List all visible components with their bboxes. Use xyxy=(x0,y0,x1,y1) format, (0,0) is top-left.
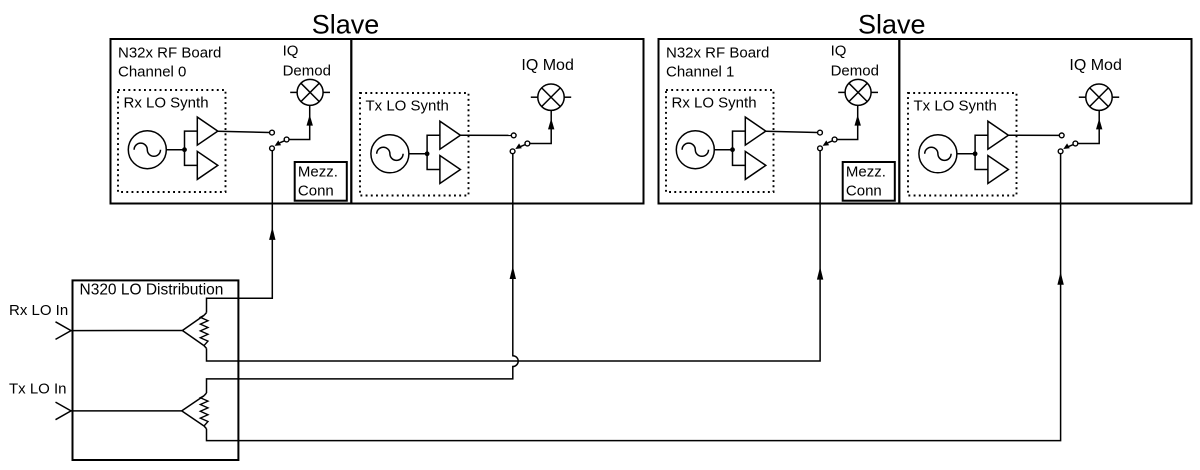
svg-text:N32x RF Board: N32x RF Board xyxy=(118,44,221,61)
svg-text:Rx LO Synth: Rx LO Synth xyxy=(672,95,757,112)
mixer: IQ Demod (channel 1) xyxy=(845,79,871,105)
svg-text:Rx LO Synth: Rx LO Synth xyxy=(124,95,209,112)
amplifier (bottom, Rx channel 1) xyxy=(745,151,766,179)
switch throw from LO distribution xyxy=(818,146,823,151)
wire: Rx splitter top output to channel 0 Rx switch xyxy=(207,151,273,313)
wire: junction to amplifier inputs xyxy=(427,135,440,169)
switch arm with arrowhead xyxy=(828,141,833,143)
oscillator (Rx LO, channel 0) xyxy=(128,131,166,169)
switch SPDT (Tx): throw from amp xyxy=(1059,133,1064,138)
wire: oscillator to junction xyxy=(166,149,184,151)
switch SPDT (Rx channel 0): throw from amp xyxy=(270,130,275,135)
oscillator (Tx LO) xyxy=(919,135,957,173)
arrowhead into mixer xyxy=(307,115,313,126)
amplifier (bottom, Rx channel 0) xyxy=(197,151,218,179)
svg-text:Conn: Conn xyxy=(846,182,882,199)
switch throw from LO distribution xyxy=(510,149,515,154)
arrowhead up (ch0 Tx feed) xyxy=(510,266,516,279)
svg-text:N320 LO Distribution: N320 LO Distribution xyxy=(80,282,224,299)
wire: junction to amplifier inputs xyxy=(975,135,988,169)
junction dot xyxy=(730,147,735,152)
svg-text:Tx LO Synth: Tx LO Synth xyxy=(914,98,997,115)
splitter Tx: triangle xyxy=(182,396,204,411)
svg-text:Slave: Slave xyxy=(312,10,380,40)
arrowhead into mixer xyxy=(548,118,554,129)
arrowhead up (ch1 Rx feed) xyxy=(817,267,823,280)
amplifier (top, Tx) xyxy=(440,121,461,149)
splitter Rx: resistor zigzag xyxy=(200,315,208,345)
N32x RF Board Channel 1 box xyxy=(659,39,900,204)
switch pole xyxy=(284,137,289,142)
wire: switch pole to IQ Demod mixer xyxy=(289,106,310,140)
wire: switch pole to IQ Mod mixer xyxy=(1078,110,1099,143)
N32x RF Board Channel 0 box xyxy=(111,39,352,204)
amplifier (bottom, Tx) xyxy=(988,156,1009,184)
mixer: IQ Mod xyxy=(1086,84,1112,110)
svg-text:IQ Mod: IQ Mod xyxy=(521,57,573,74)
svg-text:Tx LO In: Tx LO In xyxy=(9,381,67,398)
amplifier (bottom, Tx) xyxy=(440,156,461,184)
junction dot xyxy=(973,151,978,156)
svg-text:Demod: Demod xyxy=(283,63,331,80)
Mezz. Conn box xyxy=(843,162,895,201)
wire: amplifier output to switch xyxy=(1008,134,1059,136)
switch SPDT (Tx): throw from amp xyxy=(511,133,516,138)
wire: Tx LO In to splitter xyxy=(71,410,182,412)
Tx slave box xyxy=(351,39,643,204)
junction dot xyxy=(182,147,187,152)
switch throw from LO distribution xyxy=(270,146,275,151)
svg-text:Rx LO In: Rx LO In xyxy=(9,302,68,319)
wire: Rx splitter bottom output to channel 1 Rx switch xyxy=(207,151,821,361)
svg-text:Channel 1: Channel 1 xyxy=(666,63,734,80)
svg-text:IQ: IQ xyxy=(283,42,299,59)
splitter Tx: corner jogs to output wires xyxy=(204,393,207,396)
switch arm with arrowhead xyxy=(280,141,285,143)
splitter Tx: resistor zigzag xyxy=(200,396,208,426)
Mezz. Conn box xyxy=(295,162,347,201)
wire: amplifier output to switch xyxy=(460,134,511,136)
svg-text:Demod: Demod xyxy=(831,63,879,80)
switch arm with arrowhead xyxy=(1069,145,1074,147)
Tx slave box xyxy=(899,39,1191,204)
switch SPDT (Rx channel 1): throw from amp xyxy=(818,130,823,135)
Rx LO Synth dotted box xyxy=(118,90,226,192)
svg-text:Channel 0: Channel 0 xyxy=(118,63,186,80)
arrowhead into mixer xyxy=(855,115,861,126)
svg-text:IQ: IQ xyxy=(831,42,847,59)
wire: switch pole to IQ Demod mixer xyxy=(837,106,858,140)
svg-text:Slave: Slave xyxy=(858,10,926,40)
wire: junction to amplifier inputs xyxy=(733,131,746,165)
svg-text:Mezz.: Mezz. xyxy=(846,164,886,181)
wire: junction to amplifier inputs xyxy=(185,131,198,165)
svg-text:Tx LO Synth: Tx LO Synth xyxy=(366,98,449,115)
splitter Rx: corner jogs to output wires xyxy=(204,313,207,316)
oscillator (Tx LO) xyxy=(371,135,409,173)
mixer: IQ Demod (channel 0) xyxy=(297,79,323,105)
amplifier (top, Tx) xyxy=(988,121,1009,149)
switch throw from LO distribution xyxy=(1058,149,1063,154)
switch pole xyxy=(1073,141,1078,146)
svg-text:Conn: Conn xyxy=(298,182,334,199)
oscillator (Rx LO, channel 1) xyxy=(676,131,714,169)
wire: Tx splitter top output to channel 0 Tx switch (hops over Rx wire) xyxy=(207,154,519,393)
junction dot xyxy=(425,151,430,156)
svg-text:IQ Mod: IQ Mod xyxy=(1069,57,1121,74)
arrowhead up (ch0 Rx feed) xyxy=(269,227,275,240)
Rx LO Synth dotted box xyxy=(666,90,774,192)
Rx LO In connector chevron xyxy=(56,322,72,340)
switch arm with arrowhead xyxy=(521,145,526,147)
wire: Rx LO In to splitter xyxy=(71,330,182,332)
amplifier (top, Rx channel 0) xyxy=(197,117,218,145)
wire: oscillator to junction xyxy=(957,153,975,155)
arrowhead into mixer xyxy=(1096,118,1102,129)
wire: oscillator to junction xyxy=(409,153,427,155)
Tx LO Synth dotted box xyxy=(908,93,1017,196)
switch pole xyxy=(525,141,530,146)
N320 LO Distribution box xyxy=(73,280,239,460)
svg-text:N32x RF Board: N32x RF Board xyxy=(666,44,769,61)
amplifier (top, Rx channel 1) xyxy=(745,117,766,145)
svg-text:Mezz.: Mezz. xyxy=(298,164,338,181)
mixer: IQ Mod xyxy=(538,84,564,110)
switch pole xyxy=(832,137,837,142)
wire: amplifier output to switch xyxy=(766,131,818,132)
Tx LO In connector chevron xyxy=(56,402,72,420)
splitter Rx: triangle xyxy=(182,315,204,330)
wire: oscillator to junction xyxy=(714,149,732,151)
Tx LO Synth dotted box xyxy=(360,93,469,196)
wire: Tx splitter bottom output to channel 1 Tx switch xyxy=(207,154,1061,441)
wire: amplifier output to switch xyxy=(218,131,270,132)
arrowhead up (ch1 Tx feed) xyxy=(1057,272,1063,285)
wire: switch pole to IQ Mod mixer xyxy=(530,110,551,143)
